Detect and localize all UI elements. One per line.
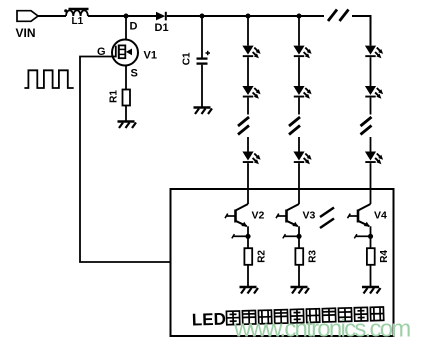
- ground under R4: [362, 287, 381, 294]
- LED string column 3 wires: [370, 57, 372, 204]
- label LED constant current control title: [192, 305, 384, 329]
- wire break marks between V3 and V4: [320, 208, 334, 229]
- svg-text:G: G: [97, 46, 106, 58]
- connector VIN port: [16, 11, 39, 40]
- svg-text:V3: V3: [303, 210, 316, 222]
- LED D-1b: [242, 86, 260, 99]
- LED D-3c: [365, 152, 383, 165]
- wire V3 emitter node: [283, 226, 302, 248]
- wire V2 emitter node: [232, 226, 251, 248]
- svg-text:V4: V4: [374, 210, 387, 222]
- LED D-1c: [242, 152, 260, 165]
- resistor R1: [109, 90, 131, 106]
- LED D-3b: [365, 86, 383, 99]
- wire R3 to ground: [298, 265, 300, 287]
- wire string2 break marks: [289, 117, 300, 135]
- svg-text:C1: C1: [182, 52, 193, 65]
- node LED string2 junction: [297, 14, 302, 19]
- wire R4 to ground: [370, 265, 372, 287]
- resistor R3: [295, 248, 318, 265]
- svg-text:R1: R1: [109, 90, 120, 103]
- svg-text:S: S: [131, 68, 138, 80]
- wire V4 emitter node: [354, 226, 373, 248]
- LED string column 1 wires: [247, 16, 249, 204]
- LED D-2c: [293, 152, 311, 165]
- transistor V3: [276, 204, 316, 227]
- resistor R4: [367, 248, 390, 265]
- svg-text:VIN: VIN: [16, 26, 36, 40]
- ground under R3: [291, 287, 310, 294]
- wire R2 to ground: [247, 265, 249, 287]
- wire VIN to L1: [38, 15, 66, 17]
- wire string3 break marks: [361, 117, 372, 135]
- wire C1 to ground: [201, 65, 203, 108]
- capacitor C1: [182, 51, 210, 65]
- wire gate to control box: [80, 57, 171, 263]
- wire rail break marks: [328, 10, 349, 22]
- wire square-wave source symbol: [24, 70, 73, 88]
- LED D-3a: [365, 46, 383, 59]
- svg-text:D: D: [130, 21, 138, 33]
- LED D-2b: [293, 86, 311, 99]
- transistor V1 MOSFET: [97, 16, 157, 80]
- wire R1 to ground: [125, 106, 127, 122]
- transistor V4: [348, 204, 388, 227]
- svg-text:V1: V1: [144, 50, 157, 62]
- wire rail after break to string3: [352, 16, 371, 46]
- control box: [171, 189, 394, 336]
- svg-text:D1: D1: [155, 22, 169, 34]
- wire L1 to drain node: [88, 15, 156, 17]
- diode D1: [155, 12, 169, 34]
- node LED string1 junction: [246, 14, 251, 19]
- inductor L1: [64, 9, 88, 27]
- ground under C1: [194, 108, 213, 115]
- LED string column 2 wires: [298, 16, 300, 204]
- wire source to R1: [125, 66, 127, 90]
- ground under R2: [240, 287, 259, 294]
- wire rail to C1: [201, 16, 203, 58]
- node C1 junction: [200, 14, 205, 19]
- svg-text:www.cntronics.com: www.cntronics.com: [233, 316, 411, 343]
- node drain junction: [124, 14, 129, 19]
- svg-text:L1: L1: [72, 16, 84, 27]
- resistor R2: [244, 248, 267, 265]
- LED D-1a: [242, 46, 260, 59]
- svg-text:R2: R2: [256, 250, 267, 263]
- wire D1 to rail: [167, 15, 324, 17]
- wire string1 break marks: [238, 117, 249, 135]
- svg-text:R4: R4: [379, 250, 390, 263]
- ground under R1: [118, 122, 137, 129]
- transistor V2: [225, 204, 265, 227]
- svg-text:LED: LED: [192, 310, 227, 330]
- svg-text:V2: V2: [252, 210, 265, 222]
- LED D-2a: [293, 46, 311, 59]
- svg-text:R3: R3: [307, 250, 318, 263]
